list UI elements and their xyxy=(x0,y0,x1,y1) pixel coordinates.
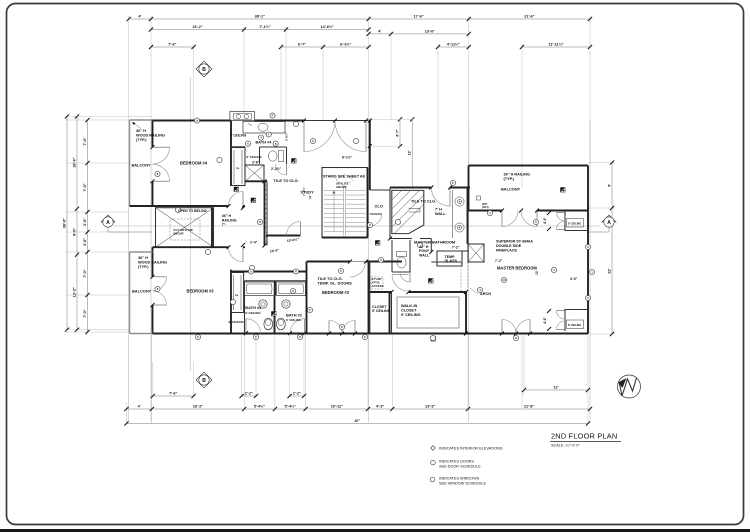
svg-text:TILE TO CLG.: TILE TO CLG. xyxy=(274,178,299,183)
svg-text:3'-0": 3'-0" xyxy=(83,238,87,246)
svg-text:BATH #3: BATH #3 xyxy=(245,305,262,310)
svg-text:A: A xyxy=(106,220,110,226)
svg-text:WALL: WALL xyxy=(419,253,430,257)
svg-text:STAIRS SEE SHEET A8: STAIRS SEE SHEET A8 xyxy=(323,175,365,179)
svg-text:WALK-IN: WALK-IN xyxy=(401,304,417,308)
svg-text:7'-0": 7'-0" xyxy=(83,269,87,277)
svg-text:12': 12' xyxy=(408,150,412,155)
svg-text:4'-5": 4'-5" xyxy=(570,277,578,281)
svg-text:WOOD RAILING: WOOD RAILING xyxy=(138,260,167,264)
svg-text:6'-7": 6'-7" xyxy=(298,43,306,47)
svg-text:7'-2": 7'-2" xyxy=(495,259,503,263)
svg-text:5'-4½": 5'-4½" xyxy=(254,405,266,409)
svg-text:11'-11¼": 11'-11¼" xyxy=(548,43,563,47)
svg-text:6'-3½": 6'-3½" xyxy=(340,43,352,47)
svg-text:4': 4' xyxy=(138,405,141,409)
svg-text:38'-0": 38'-0" xyxy=(63,218,67,229)
svg-text:7'-0": 7'-0" xyxy=(83,183,87,191)
svg-text:8'-0": 8'-0" xyxy=(73,227,77,235)
svg-text:4': 4' xyxy=(138,15,141,19)
svg-text:87': 87' xyxy=(355,419,360,423)
svg-text:4': 4' xyxy=(378,29,381,33)
svg-text:2': 2' xyxy=(235,293,239,296)
svg-text:2'-2": 2'-2" xyxy=(293,392,301,396)
svg-text:BEDROOM #4: BEDROOM #4 xyxy=(180,161,208,166)
svg-text:36" H: 36" H xyxy=(138,256,148,260)
svg-text:INDICATES INTERIOR ELEVATIONS: INDICATES INTERIOR ELEVATIONS xyxy=(439,447,503,451)
svg-text:9' CEILING: 9' CEILING xyxy=(401,313,421,317)
svg-text:4'-11½": 4'-11½" xyxy=(447,43,460,47)
svg-text:SUPERIOR ST-3846A: SUPERIOR ST-3846A xyxy=(496,240,533,244)
svg-text:18'-6": 18'-6" xyxy=(73,157,77,168)
svg-text:2ND FLOOR PLAN: 2ND FLOOR PLAN xyxy=(551,432,617,441)
svg-text:13'-2": 13'-2" xyxy=(73,287,77,298)
svg-text:7'-0": 7'-0" xyxy=(83,137,87,145)
svg-text:2'-2½": 2'-2½" xyxy=(271,167,282,171)
svg-text:10'-11": 10'-11" xyxy=(331,405,343,409)
svg-text:22': 22' xyxy=(608,268,612,273)
svg-text:BATH #2: BATH #2 xyxy=(286,313,303,318)
svg-text:4'-7": 4'-7" xyxy=(396,129,400,137)
svg-text:7'-2": 7'-2" xyxy=(452,246,460,250)
svg-text:F: F xyxy=(452,181,454,185)
svg-text:9': 9' xyxy=(608,184,612,187)
svg-text:7'-0": 7'-0" xyxy=(83,309,87,317)
svg-text:16'-2": 16'-2" xyxy=(193,405,204,409)
svg-text:INDICATES DOORS: INDICATES DOORS xyxy=(439,460,474,464)
svg-text:12': 12' xyxy=(308,195,312,199)
svg-text:8'-1½": 8'-1½" xyxy=(342,156,353,160)
svg-text:21'-6": 21'-6" xyxy=(524,15,535,19)
svg-text:9' CEILING: 9' CEILING xyxy=(245,311,261,315)
svg-text:7'-1¾": 7'-1¾" xyxy=(302,186,306,196)
svg-text:C: C xyxy=(255,335,257,339)
svg-text:8' CEILING: 8' CEILING xyxy=(568,323,581,327)
svg-text:ABOVE: ABOVE xyxy=(336,185,347,189)
svg-text:WOOD RAILING: WOOD RAILING xyxy=(136,133,165,137)
svg-text:4'-3": 4'-3" xyxy=(376,405,384,409)
svg-text:SEE WINDOW SCHEDULE: SEE WINDOW SCHEDULE xyxy=(439,481,487,485)
svg-text:9' CEILING: 9' CEILING xyxy=(229,320,245,324)
svg-text:2': 2' xyxy=(236,166,240,169)
svg-text:MASTER BEDROOM: MASTER BEDROOM xyxy=(497,266,537,271)
svg-text:3'-0": 3'-0" xyxy=(83,218,87,226)
svg-text:10: 10 xyxy=(502,278,506,282)
svg-text:GLASS: GLASS xyxy=(445,259,458,263)
svg-text:2'-4": 2'-4" xyxy=(250,241,258,245)
svg-text:36" H RAILING: 36" H RAILING xyxy=(504,173,531,177)
svg-text:FIREPLACE: FIREPLACE xyxy=(496,248,517,252)
svg-text:TEMP. GL. DOORS: TEMP. GL. DOORS xyxy=(318,281,353,286)
svg-text:9' CEILING: 9' CEILING xyxy=(372,309,391,313)
svg-text:7' H: 7' H xyxy=(435,208,442,212)
svg-text:F: F xyxy=(272,114,274,118)
svg-text:MASTER BATHROOM: MASTER BATHROOM xyxy=(414,240,456,245)
svg-text:CLO: CLO xyxy=(375,204,383,209)
svg-text:B: B xyxy=(202,378,206,384)
svg-text:WALL: WALL xyxy=(435,212,446,216)
svg-text:BEDROOM #3: BEDROOM #3 xyxy=(187,289,215,294)
svg-text:B: B xyxy=(202,67,206,73)
svg-text:C: C xyxy=(197,335,199,339)
svg-text:16'-2": 16'-2" xyxy=(192,25,203,29)
svg-text:9' CEILING: 9' CEILING xyxy=(230,134,247,138)
svg-text:TILE TO CLG.: TILE TO CLG. xyxy=(411,199,436,204)
svg-text:38'-1": 38'-1" xyxy=(255,15,266,19)
svg-text:BALCONY: BALCONY xyxy=(501,187,521,192)
svg-text:7'-6": 7'-6" xyxy=(169,392,177,396)
svg-text:4'-6": 4'-6" xyxy=(543,317,547,324)
svg-text:8' CEILING: 8' CEILING xyxy=(568,222,581,226)
svg-text:14'-6½": 14'-6½" xyxy=(321,25,335,29)
svg-text:21'-8": 21'-8" xyxy=(524,405,535,409)
svg-text:C: C xyxy=(364,335,366,339)
svg-text:SCALE: ¼"=1'-0": SCALE: ¼"=1'-0" xyxy=(551,444,581,448)
svg-text:A: A xyxy=(607,220,611,226)
svg-text:17'-6": 17'-6" xyxy=(414,15,425,19)
svg-text:9' CEILING: 9' CEILING xyxy=(247,155,263,159)
svg-text:2'-2": 2'-2" xyxy=(245,392,253,396)
svg-text:ACCESS: ACCESS xyxy=(372,284,384,288)
svg-text:DOUBLE SIDE: DOUBLE SIDE xyxy=(496,244,522,248)
svg-text:INDICATES WINDOWS: INDICATES WINDOWS xyxy=(439,477,480,481)
svg-text:13'-6": 13'-6" xyxy=(425,29,436,33)
svg-text:ARCH: ARCH xyxy=(480,292,491,296)
svg-text:C: C xyxy=(299,335,301,339)
svg-text:(TYP.): (TYP.) xyxy=(138,265,149,269)
svg-text:13'-3": 13'-3" xyxy=(425,405,436,409)
svg-text:5'-4½": 5'-4½" xyxy=(285,405,297,409)
svg-text:BEDROOM #2: BEDROOM #2 xyxy=(322,290,350,295)
svg-text:3'-6": 3'-6" xyxy=(252,161,260,165)
svg-text:7'-1½": 7'-1½" xyxy=(259,25,271,29)
svg-text:13': 13' xyxy=(535,270,539,275)
svg-text:CLOSET: CLOSET xyxy=(401,308,417,312)
svg-text:36" H: 36" H xyxy=(136,129,146,133)
svg-text:2'-6½": 2'-6½" xyxy=(285,131,289,141)
svg-text:12': 12' xyxy=(553,386,558,390)
svg-text:(TYP.): (TYP.) xyxy=(136,138,147,142)
svg-text:7'-6": 7'-6" xyxy=(168,43,176,47)
svg-text:BALCONY: BALCONY xyxy=(132,289,152,294)
svg-text:9' CEILING: 9' CEILING xyxy=(286,318,302,322)
svg-text:OPEN TO BELOW: OPEN TO BELOW xyxy=(178,209,208,213)
svg-text:(GFI): (GFI) xyxy=(482,205,489,209)
svg-text:ABOVE: ABOVE xyxy=(173,232,184,236)
svg-text:(TYP.): (TYP.) xyxy=(504,177,515,181)
svg-text:BATH #4: BATH #4 xyxy=(256,140,273,145)
svg-text:SEE DOOR SCHEDULE: SEE DOOR SCHEDULE xyxy=(439,464,481,468)
svg-text:BALCONY: BALCONY xyxy=(132,163,152,168)
svg-text:4'-6": 4'-6" xyxy=(543,217,547,224)
